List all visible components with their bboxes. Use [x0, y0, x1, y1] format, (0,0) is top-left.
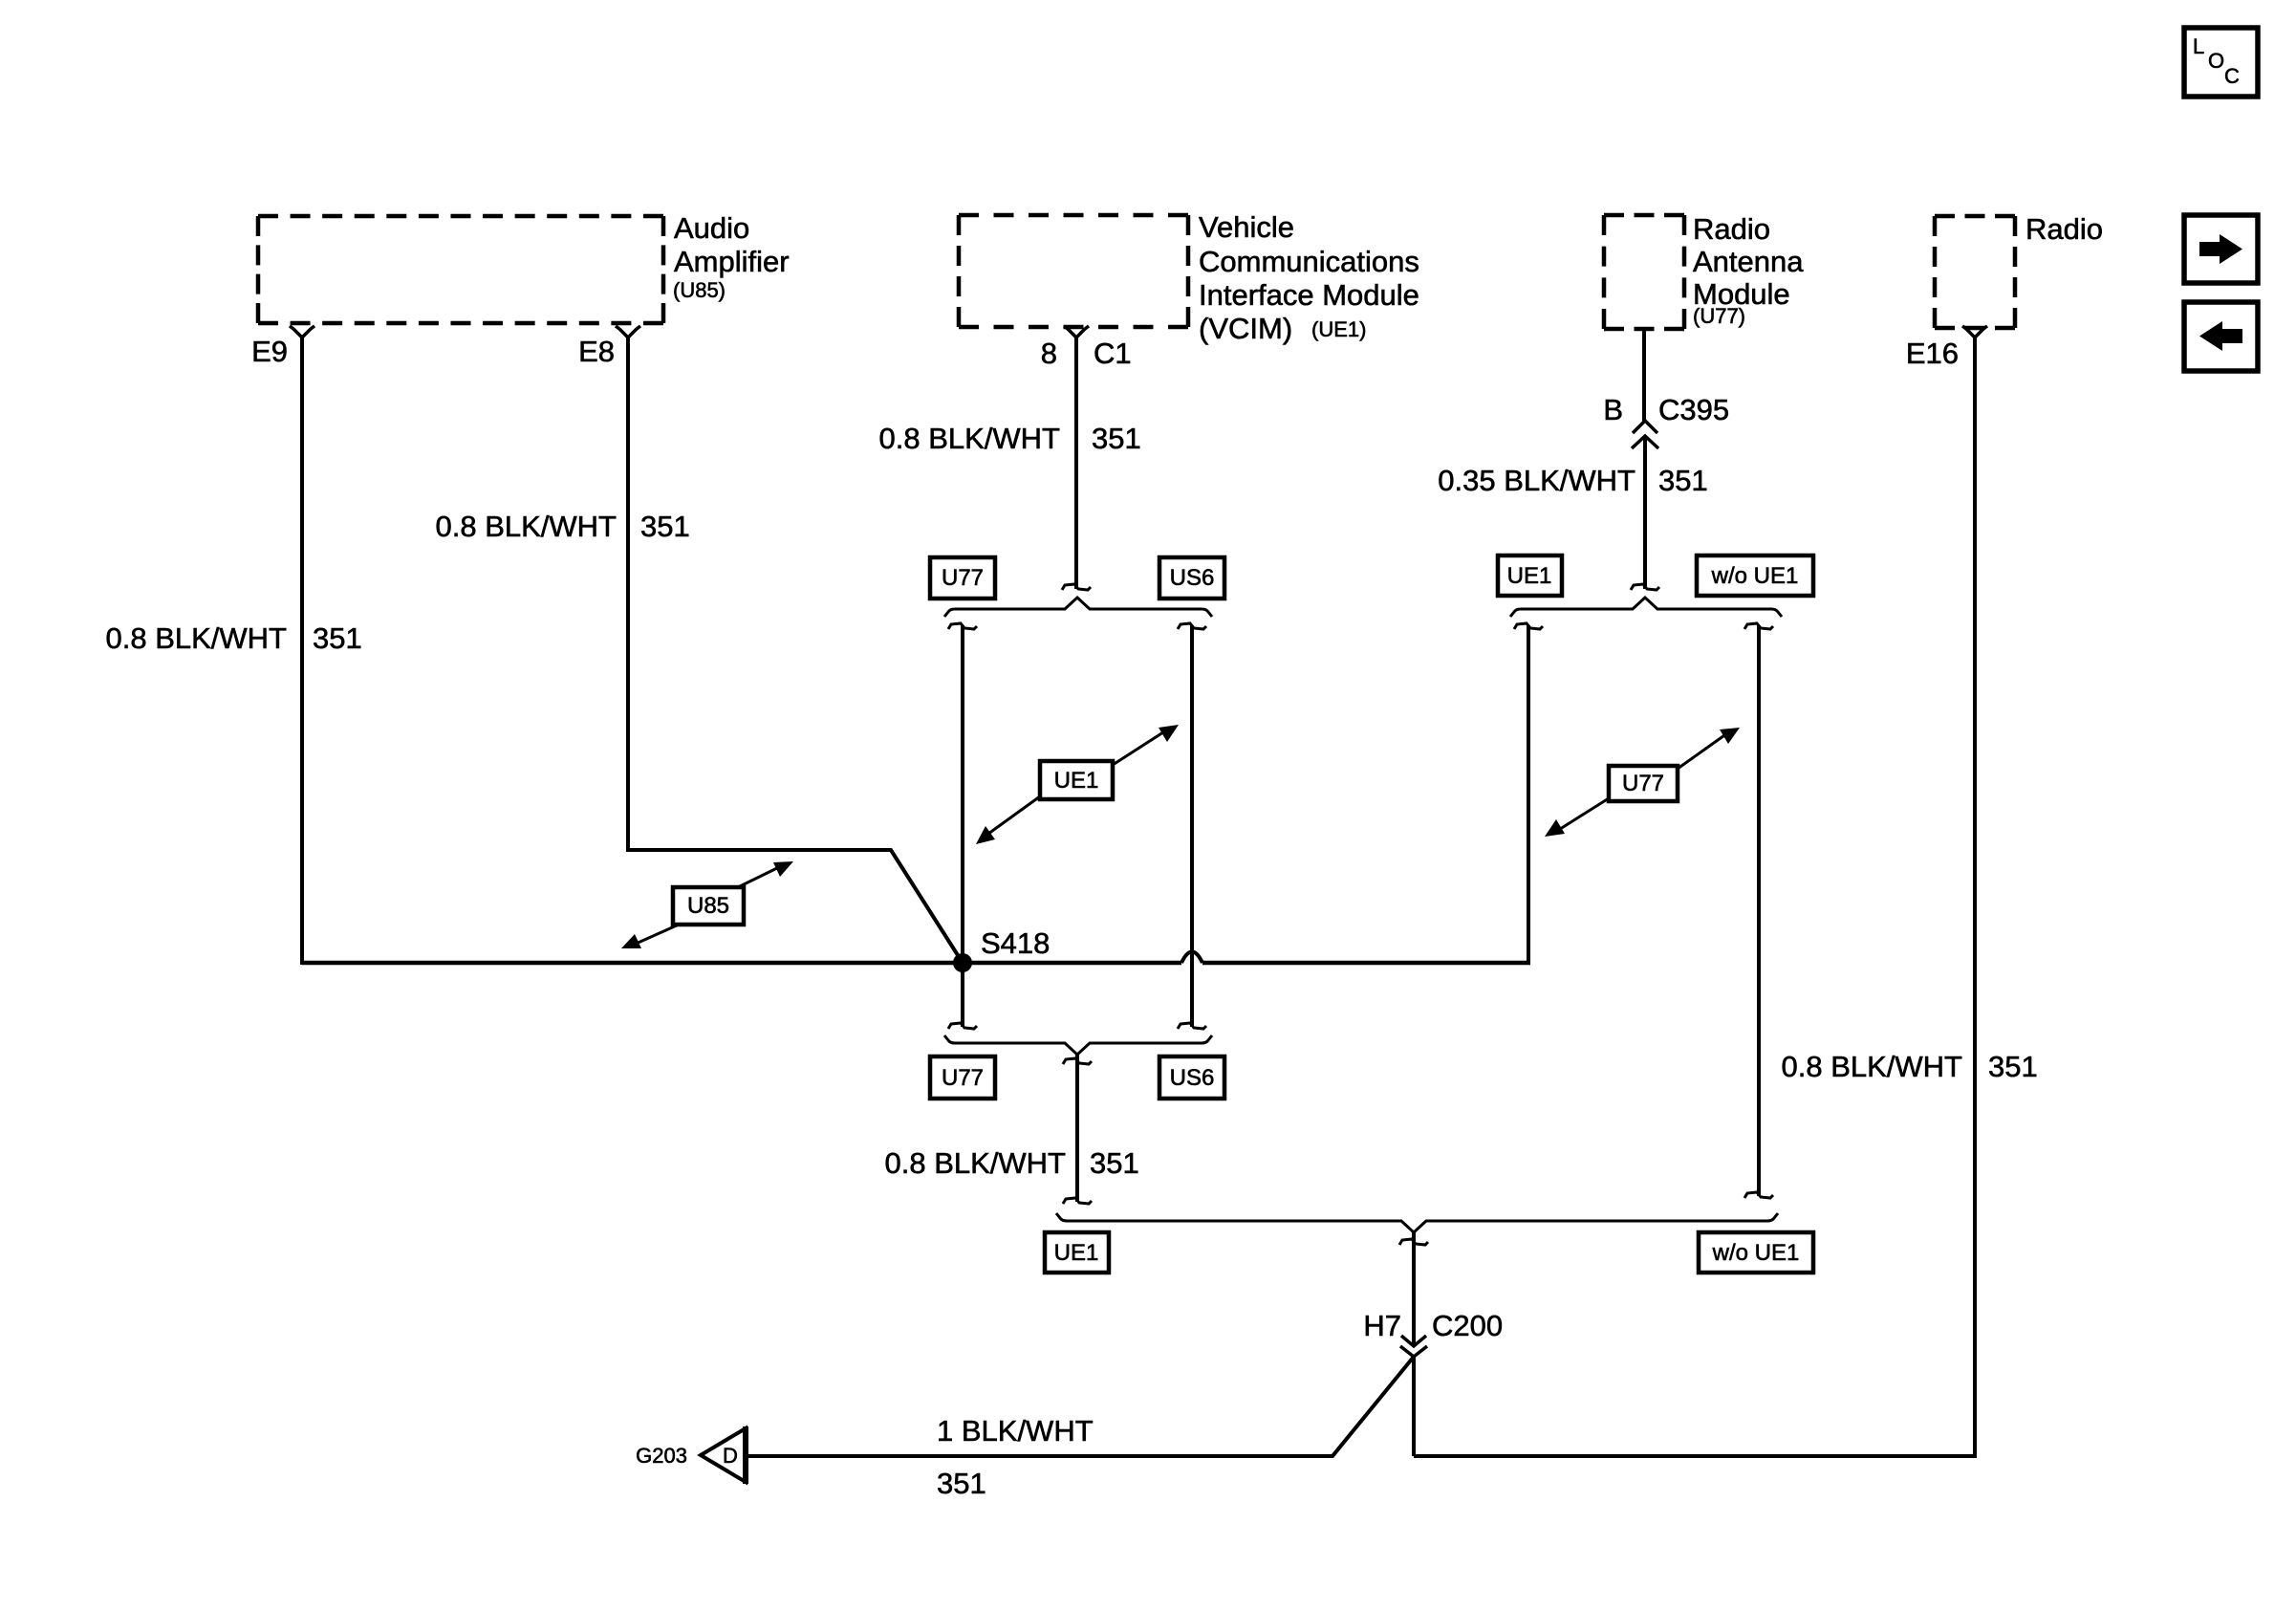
module Audio Amplifier U85 dashed box	[258, 216, 663, 323]
svg-text:C200: C200	[1432, 1309, 1503, 1342]
branch hook w/o UE1 bottom	[1744, 1192, 1773, 1198]
bus hop arc	[1181, 952, 1202, 964]
svg-text:UE1: UE1	[1507, 563, 1552, 589]
svg-text:O: O	[2208, 49, 2224, 73]
arrow label U85	[621, 861, 793, 948]
svg-text:U77: U77	[942, 1065, 984, 1091]
option box UE1 bottom	[1045, 1232, 1109, 1273]
svg-text:351: 351	[313, 621, 362, 655]
splice bus S418 with hop over US6 branch	[302, 961, 1530, 966]
svg-text:U77: U77	[942, 565, 984, 591]
pin E16 connector Y	[1962, 326, 1987, 337]
svg-text:351: 351	[1658, 464, 1708, 497]
brace merge U77/US6 bottom	[944, 1035, 1212, 1055]
branch hook UE1	[1514, 623, 1543, 629]
legend right-arrow box	[2184, 215, 2258, 283]
arrow label U77 (right)	[1545, 728, 1740, 837]
pin E8 connector Y	[616, 326, 640, 337]
svg-text:Vehicle: Vehicle	[1199, 210, 1294, 244]
branch wire US6	[1190, 625, 1194, 1027]
tilde top mid wire	[1063, 1058, 1092, 1064]
branch hook w/o UE1 top	[1744, 623, 1773, 629]
svg-text:0.8 BLK/WHT: 0.8 BLK/WHT	[879, 422, 1061, 455]
label Radio Antenna Module (U77)	[1693, 212, 1804, 328]
svg-text:0.8 BLK/WHT: 0.8 BLK/WHT	[106, 621, 288, 655]
svg-text:Audio: Audio	[674, 211, 749, 245]
brace merge bottom wide	[1056, 1213, 1778, 1232]
branch hook US6 bottom	[1178, 1023, 1206, 1029]
option box U77 bottom	[930, 1056, 995, 1099]
svg-text:U85: U85	[687, 893, 729, 919]
svg-text:S418: S418	[981, 926, 1050, 960]
wire E16 vertical long	[1414, 337, 1975, 1456]
svg-text:C395: C395	[1658, 393, 1729, 426]
branch wire w/o UE1 long	[1757, 625, 1761, 1196]
arrow label UE1 (mid)	[976, 725, 1179, 844]
svg-text:E8: E8	[578, 335, 615, 368]
branch hook U77 top	[948, 623, 977, 629]
svg-text:0.8 BLK/WHT: 0.8 BLK/WHT	[885, 1146, 1067, 1180]
label Vehicle Communications Interface Module (VCIM) (UE1)	[1199, 210, 1419, 345]
svg-text:D: D	[723, 1444, 738, 1468]
svg-text:Communications: Communications	[1199, 245, 1419, 278]
wire Radio Antenna Module down to C395	[1642, 329, 1646, 422]
branch hook U77 bottom	[948, 1023, 977, 1029]
svg-text:C: C	[2224, 64, 2240, 88]
label Audio Amplifier (U85)	[673, 211, 790, 302]
svg-text:w/o UE1: w/o UE1	[1712, 1240, 1800, 1266]
wire end tilde (VCIM)	[1062, 584, 1091, 590]
option box US6 top	[1159, 557, 1224, 599]
svg-text:E9: E9	[251, 335, 288, 368]
svg-text:L: L	[2193, 34, 2204, 58]
module Radio dashed box	[1935, 216, 2015, 328]
LOC legend box	[2184, 28, 2258, 97]
svg-text:0.8 BLK/WHT: 0.8 BLK/WHT	[1782, 1050, 1963, 1083]
svg-text:(U85): (U85)	[673, 278, 726, 302]
branch hook US6 top	[1178, 623, 1206, 629]
svg-text:Antenna: Antenna	[1693, 245, 1804, 278]
svg-text:351: 351	[640, 510, 690, 543]
svg-text:Interface Module: Interface Module	[1199, 278, 1419, 312]
connector H7 C200 arrow + chevrons	[1400, 1336, 1427, 1357]
pin E9 connector Y	[290, 326, 314, 337]
svg-text:351: 351	[1092, 422, 1141, 455]
svg-text:Amplifier: Amplifier	[674, 245, 790, 278]
ground G203 symbol triangle D	[701, 1426, 746, 1484]
svg-text:351: 351	[937, 1467, 986, 1500]
svg-text:Radio: Radio	[2025, 212, 2103, 246]
option box w/o UE1 right	[1697, 555, 1813, 596]
svg-text:US6: US6	[1170, 1065, 1215, 1091]
svg-text:(U77): (U77)	[1693, 304, 1745, 328]
wire mid vertical below second brace	[1075, 1054, 1079, 1202]
svg-text:8: 8	[1041, 337, 1057, 370]
connector C395 chevrons	[1632, 421, 1658, 448]
wire below H7 connector down to ground run	[1412, 1357, 1416, 1456]
tilde bottom mid wire	[1063, 1198, 1092, 1204]
svg-text:U77: U77	[1622, 771, 1664, 796]
svg-text:E16: E16	[1906, 337, 1959, 370]
svg-text:C1: C1	[1094, 337, 1132, 370]
svg-text:(VCIM): (VCIM)	[1199, 312, 1292, 345]
svg-text:B: B	[1603, 393, 1623, 426]
svg-text:0.35 BLK/WHT: 0.35 BLK/WHT	[1438, 464, 1635, 497]
svg-text:351: 351	[1090, 1146, 1139, 1180]
tilde below bottom brace	[1399, 1239, 1428, 1245]
legend left-arrow box	[2184, 302, 2258, 371]
brace split U77/US6 top	[944, 598, 1212, 617]
wire end tilde (C395 wire)	[1631, 584, 1659, 590]
splice S418 junction dot	[953, 953, 972, 972]
svg-text:w/o UE1: w/o UE1	[1711, 563, 1799, 589]
svg-text:UE1: UE1	[1054, 1240, 1099, 1266]
svg-text:1 BLK/WHT: 1 BLK/WHT	[937, 1414, 1094, 1448]
ground wire G203 horizontal	[746, 1357, 1414, 1456]
option box w/o UE1 bottom	[1699, 1232, 1813, 1273]
svg-text:351: 351	[1988, 1050, 2038, 1083]
option box UE1 right	[1498, 555, 1562, 596]
wire C395 to brace	[1643, 436, 1647, 589]
svg-text:G203: G203	[636, 1444, 687, 1468]
module Radio Antenna Module U77 dashed box	[1604, 215, 1684, 329]
module VCIM UE1 dashed box	[959, 215, 1188, 327]
svg-text:0.8 BLK/WHT: 0.8 BLK/WHT	[436, 510, 617, 543]
wire below bottom brace to H7	[1412, 1231, 1416, 1344]
wire E8 vertical + elbow + diagonal to S418	[628, 337, 963, 963]
brace split UE1 / w-o UE1 top right	[1510, 598, 1782, 617]
option box US6 bottom	[1159, 1056, 1224, 1099]
pin 8 C1 connector Y	[1064, 326, 1089, 337]
option box U77 top	[930, 557, 995, 599]
wire E9 vertical	[300, 337, 304, 965]
svg-text:US6: US6	[1170, 565, 1215, 591]
svg-text:UE1: UE1	[1054, 768, 1099, 794]
svg-text:(UE1): (UE1)	[1311, 317, 1366, 341]
svg-text:Radio: Radio	[1693, 212, 1770, 246]
branch wire U77 (through S418)	[961, 625, 964, 1027]
svg-text:H7: H7	[1363, 1309, 1401, 1342]
wire VCIM pin 8 down	[1074, 337, 1078, 589]
branch wire UE1 down to bus	[1527, 625, 1530, 963]
